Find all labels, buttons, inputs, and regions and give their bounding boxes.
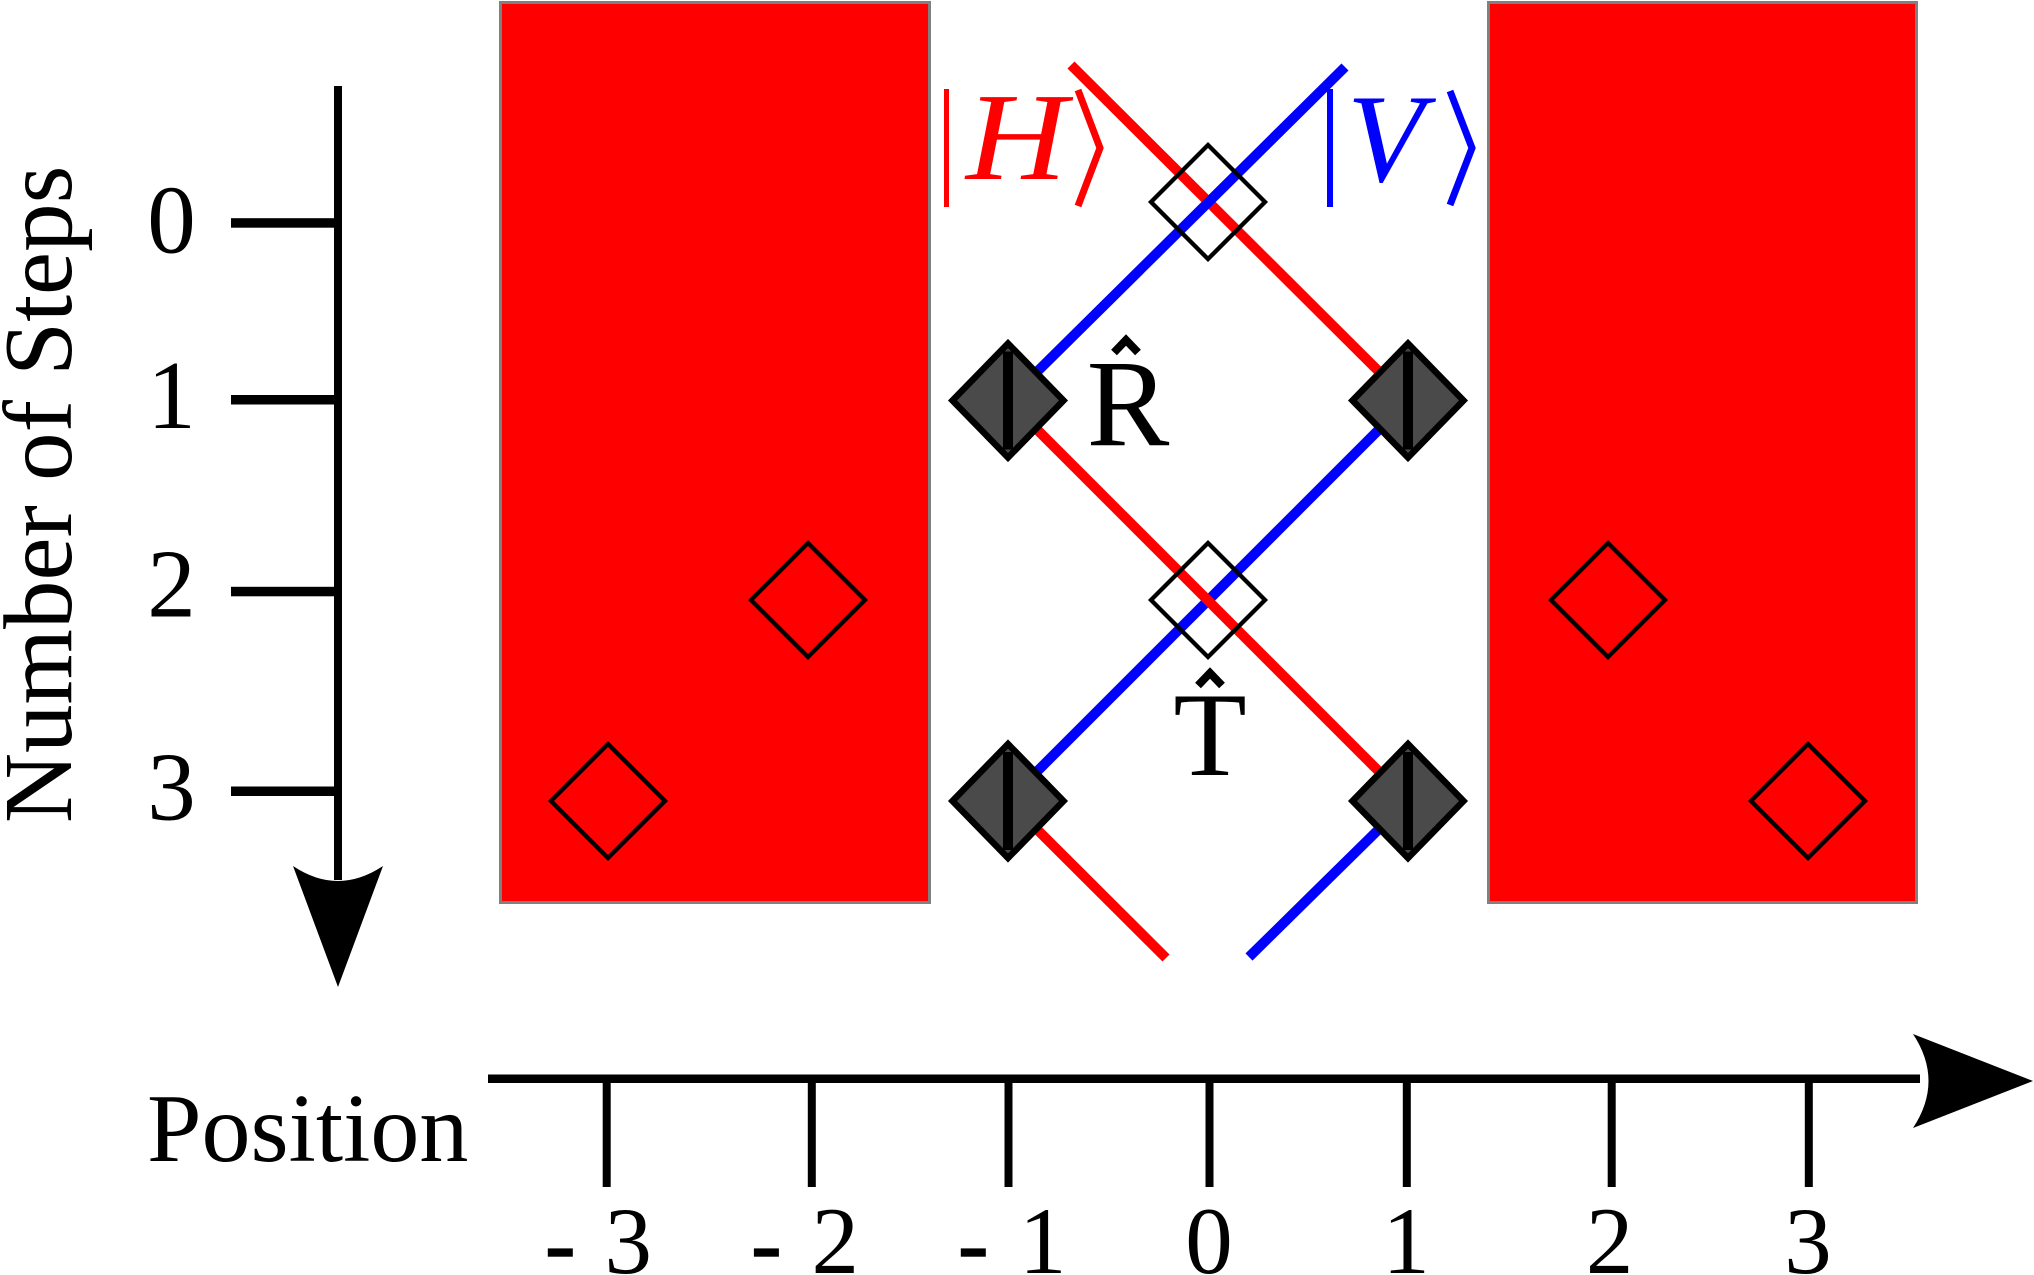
svg-text:0: 0: [1185, 1188, 1233, 1275]
svg-text:1: 1: [1382, 1188, 1430, 1275]
svg-text:Position: Position: [147, 1075, 468, 1183]
svg-text:R: R: [1087, 335, 1170, 472]
svg-text:3: 3: [605, 1188, 653, 1275]
svg-text:2: 2: [147, 531, 196, 638]
svg-text:Number of Steps: Number of Steps: [0, 166, 92, 823]
svg-text:3: 3: [147, 734, 196, 841]
svg-text:0: 0: [147, 167, 196, 274]
svg-text:1: 1: [147, 342, 196, 449]
svg-text:T: T: [1173, 668, 1246, 801]
svg-text:1: 1: [1019, 1188, 1067, 1275]
svg-text:3: 3: [1784, 1188, 1832, 1275]
svg-text:2: 2: [811, 1188, 859, 1275]
svg-text:2: 2: [1586, 1188, 1634, 1275]
svg-text:V: V: [1347, 70, 1437, 209]
svg-text:H: H: [964, 69, 1074, 207]
